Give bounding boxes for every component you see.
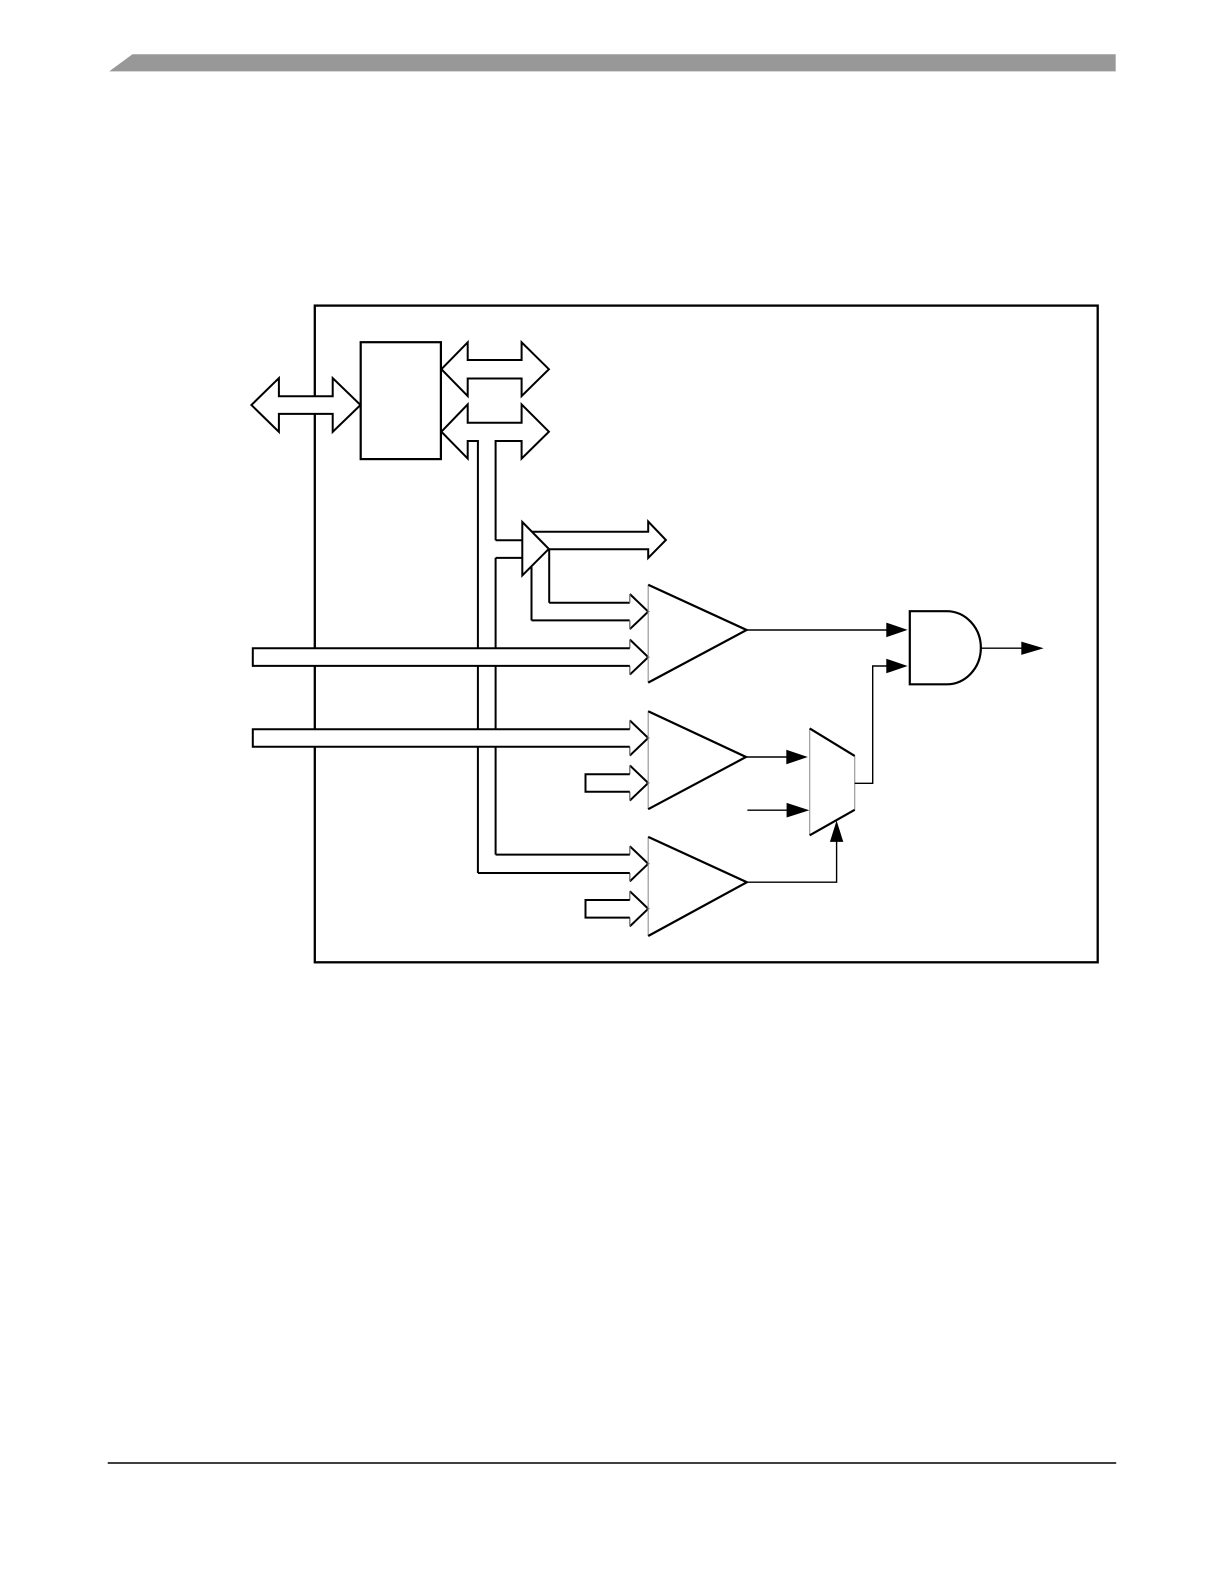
mux select line — [747, 809, 788, 811]
vertical bus line right leg upper — [495, 441, 497, 540]
hollow arrowhead A5 into comparator 3 (bus elbow) — [630, 846, 648, 881]
solid arrowhead mux select — [787, 803, 810, 818]
bus from S1 down to comparator 1 plus input — [548, 549, 550, 603]
hollow arrowhead A4 into comparator 2 (reference stub) — [630, 765, 648, 800]
hollow arrowhead A1 into comparator 1 — [630, 594, 648, 629]
hollow arrowhead A3 into comparator 2 (channel bus) — [630, 720, 648, 755]
gate output wire — [981, 647, 1023, 649]
footer rule — [108, 1462, 1116, 1464]
comparator 2 output to mux input — [746, 756, 788, 758]
AND-style gate — [910, 611, 981, 684]
hollow arrowhead A6 into comparator 3 (reference stub) — [630, 891, 648, 926]
left bidirectional bus arrow DA0 crossing outer box — [251, 378, 360, 432]
comparator 2 — [648, 711, 746, 809]
solid arrowhead mux input 1 — [786, 750, 808, 765]
solid up arrowhead into mux bottom — [830, 821, 843, 842]
channel input bus A (crosses box wall and vertical bus) — [253, 648, 630, 666]
channel input bus B (crosses box wall and vertical bus) — [253, 729, 630, 747]
bus double-arrow DA2 (register to right, lower) — [441, 404, 549, 458]
bus double-arrow DA1 (register to right, upper) — [441, 342, 549, 396]
module outer box — [315, 306, 1098, 963]
comparator 3 — [648, 837, 747, 936]
gap in DA2 lower shaft edge where bus legs exit — [479, 440, 495, 443]
reference stub arrow shaft for comparator 3 — [586, 900, 630, 918]
bus elbow into comparator 3 — [496, 854, 630, 856]
solid arrowhead gate input 1 — [886, 623, 907, 638]
reference stub arrow shaft for comparator 2 — [586, 774, 630, 792]
mux output wire to gate input 2 — [855, 666, 888, 783]
comparator 1 — [648, 585, 746, 683]
vertical bus line right leg lower — [495, 558, 497, 855]
solid arrowhead gate input 2 — [886, 659, 907, 674]
small arrowhead S1 feeding output arrow — [522, 522, 549, 575]
register block — [361, 342, 441, 459]
vertical bus line left leg — [477, 441, 479, 873]
branch bus to output arrow — [496, 539, 523, 541]
big hollow output arrow — [532, 522, 666, 558]
comparator 3 output wire to mux bottom — [747, 841, 837, 882]
mux trapezoid — [810, 728, 855, 835]
solid arrowhead module output — [1021, 642, 1043, 655]
hollow arrowhead A2 into comparator 1 (channel bus) — [630, 640, 648, 675]
comparator 1 output to gate input 1 — [747, 629, 888, 631]
header gray bar — [109, 54, 1115, 71]
